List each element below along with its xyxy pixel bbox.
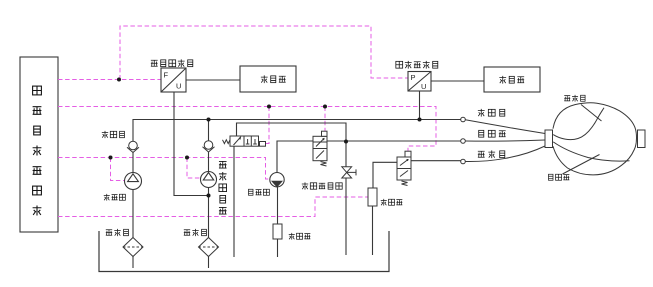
filter 2 过滤器 [199, 238, 219, 257]
flow sensor U1 [161, 68, 186, 92]
label 数显表 [499, 76, 524, 84]
return pump 回水泵 [270, 173, 284, 187]
label 排气管 [564, 95, 585, 102]
node return port [461, 139, 466, 144]
svg-text:U: U [421, 82, 426, 91]
signal wires (pink dashed) [58, 26, 436, 217]
exhaust pipe inside vessel [553, 108, 604, 140]
water tank [99, 231, 389, 272]
pipes (black) [133, 91, 461, 268]
filter1 stem [132, 257, 134, 269]
pipe pump2 to filter2 [208, 188, 210, 238]
manual relief valve 手动卸压阀 [342, 167, 356, 178]
label 过滤器 [184, 229, 207, 236]
svg-text:F: F [164, 71, 169, 80]
water probe 1 水探针 [273, 224, 282, 239]
port circles [461, 117, 466, 164]
wire top loop to pressure sensor [120, 26, 408, 80]
label 水探针 [381, 199, 403, 206]
pointer line to return pipe [563, 155, 600, 175]
label 单向阀 [102, 131, 125, 138]
label 注水泵 [104, 194, 126, 201]
label 排气口 [478, 150, 505, 158]
label 变频试压泵 (vertical) [219, 161, 227, 214]
pipe pump1 to filter1 [132, 190, 134, 238]
pipe riser check valve2 [208, 120, 210, 141]
pipe manual valve to tank [345, 178, 347, 255]
pipe check valve2 to pump2 [208, 152, 210, 172]
pipe return pump down to probe1 [277, 187, 279, 224]
vessel (cavity model) [553, 103, 637, 175]
node pump1 wire junction [109, 156, 113, 160]
node pressure riser junction [418, 118, 422, 122]
flow sensor riser down to pump2 line [174, 92, 209, 196]
directional valve V1 [223, 136, 266, 146]
label 过滤器 [106, 229, 129, 236]
node dir valve wire junction [267, 105, 271, 109]
label 回水口 [479, 130, 506, 137]
pipe probe1 to tank [277, 239, 279, 257]
main injection pipe [133, 120, 461, 142]
pipe to right relief valve left port [373, 162, 397, 188]
wire branch to directional valve [266, 107, 270, 144]
junction dots [109, 78, 422, 198]
pipe check valve1 to pump1 [132, 153, 134, 173]
check valve 1 单向阀 [127, 141, 139, 152]
pointer line to exhaust pipe [581, 105, 602, 122]
digital meter 2 [484, 67, 540, 92]
variable-frequency test pump 变频试压泵 [201, 172, 217, 188]
exhaust solenoid valve U4 [397, 151, 411, 185]
filter2 stem [208, 257, 210, 269]
label 注水口 [478, 109, 505, 117]
label 压力传感器 [396, 61, 438, 69]
node sensor line pump2 junction [207, 194, 211, 198]
vessel flange [545, 130, 553, 148]
node check2 riser junction [207, 118, 211, 122]
node injection port [461, 117, 466, 122]
node relief wire junction [323, 105, 327, 109]
directional valve drain pipe [233, 146, 235, 257]
hoses from ports to vessel flange [465, 120, 545, 162]
pipe directional valve top loop [237, 123, 347, 167]
vessel right cap [638, 130, 646, 148]
relief valve U3 (solenoid) [313, 131, 327, 166]
wire branch to relief valve U3 [324, 107, 326, 132]
wire box to pumps [58, 158, 270, 180]
pressure sensor U2 [408, 72, 431, 92]
check valve 2 [203, 141, 215, 152]
return pump riser and return pipe [277, 141, 461, 173]
node pump2 wire junction [185, 156, 189, 160]
label 回水管 [549, 174, 570, 180]
node sensor wire junction [117, 78, 121, 82]
label 计算机控制中心 (vertical) [33, 86, 42, 215]
return pipe inside vessel [553, 142, 629, 161]
label 回水泵 [249, 189, 270, 195]
digital meter 1 [240, 66, 296, 92]
computer control center box [20, 57, 58, 232]
label 水探针 [289, 233, 311, 240]
wire branch to injection pump [111, 158, 125, 181]
label 手动卸压阀 [302, 182, 342, 189]
pipe probe2 to tank [372, 206, 374, 255]
wire branch to test pump [187, 158, 201, 179]
pipe right relief valve to exhaust port [411, 160, 461, 162]
svg-text:P: P [411, 73, 416, 82]
wire box to solenoid valves [58, 107, 436, 152]
wire sensor to meter1 [186, 79, 240, 81]
label 流量传感器 [151, 59, 193, 67]
node exhaust port [461, 159, 466, 164]
label 数显表 [261, 75, 286, 83]
filter 1 过滤器 [123, 238, 143, 257]
wire sensor2 to meter2 [431, 80, 484, 82]
wire box to flow sensor [58, 79, 161, 81]
svg-text:U: U [176, 82, 181, 91]
water probe 2 水探针 [368, 188, 377, 206]
pressure sensor riser [419, 91, 421, 120]
wire box to water probe [58, 197, 368, 217]
injection pump 注水泵 [125, 173, 142, 190]
node manual valve junction [344, 140, 348, 144]
